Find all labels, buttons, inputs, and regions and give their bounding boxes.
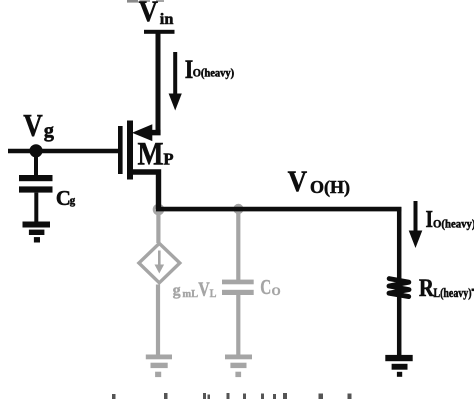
node Vg junction dot (29, 144, 42, 157)
wire capacitor CO top lead (236, 211, 240, 280)
svg-text:g: g (44, 118, 54, 142)
dependent source internal arrow (158, 251, 161, 267)
svg-text:O(heavy): O(heavy) (433, 216, 474, 230)
svg-text:g: g (70, 195, 76, 207)
resistor RL(heavy) (389, 279, 409, 297)
wire resistor to ground (397, 293, 402, 356)
svg-text:mL: mL (182, 289, 198, 300)
svg-text:O: O (272, 286, 281, 298)
node CO gray junction dot (under wire) (233, 204, 243, 214)
wire capacitor Cg top lead (34, 151, 38, 176)
svg-text:O(heavy): O(heavy) (193, 68, 235, 80)
svg-text:P: P (163, 150, 173, 169)
label gmL VL (173, 279, 217, 301)
svg-text:g: g (173, 282, 181, 299)
svg-text:V: V (198, 279, 210, 301)
svg-text:L(heavy): L(heavy) (434, 285, 472, 300)
transistor MP drain lead (133, 172, 159, 209)
ground (under RL) (385, 355, 412, 377)
svg-text:O(H): O(H) (310, 177, 350, 198)
svg-text:C: C (56, 186, 71, 210)
dependent current source gmL VL diamond (139, 243, 180, 282)
svg-text:V: V (23, 107, 43, 143)
wire dependent source bottom lead (156, 285, 160, 356)
node VO(H) gray junction dot (under wires) (153, 204, 165, 216)
cropped text remnant top edge (127, 0, 138, 3)
svg-text:C: C (260, 275, 271, 299)
svg-text:R: R (419, 273, 434, 302)
wire output node to load (156, 207, 401, 212)
current arrow IO(heavy) right (414, 201, 418, 233)
svg-text:L: L (210, 288, 217, 300)
wire Vg to gate (8, 149, 119, 154)
svg-text:I: I (426, 206, 434, 233)
supply bar Vin (144, 30, 175, 34)
capacitor Cg plates (19, 175, 53, 181)
wire capacitor Cg bottom lead (34, 193, 38, 222)
svg-text:M: M (138, 137, 164, 173)
ground (gray, under CO) (225, 355, 252, 378)
capacitor CO plates (222, 280, 254, 285)
wire dependent source top lead (156, 211, 160, 243)
ground (gray, under dependent source) (146, 355, 172, 378)
wire Vin to source (156, 32, 161, 134)
transistor MP gate bar (118, 126, 123, 174)
caption text tops (cropped at bottom edge) (112, 393, 352, 399)
svg-text:in: in (160, 11, 174, 28)
transistor MP source lead with arrow (148, 130, 161, 136)
hyphen remnant right edge (472, 289, 474, 292)
ground (under Cg) (23, 222, 51, 243)
wire down to resistor (397, 207, 402, 281)
svg-text:V: V (288, 165, 308, 198)
transistor MP channel bar (127, 121, 133, 180)
svg-text:V: V (139, 0, 159, 28)
current arrow IO(heavy) top (173, 52, 177, 97)
wire capacitor CO bottom lead (236, 295, 240, 355)
